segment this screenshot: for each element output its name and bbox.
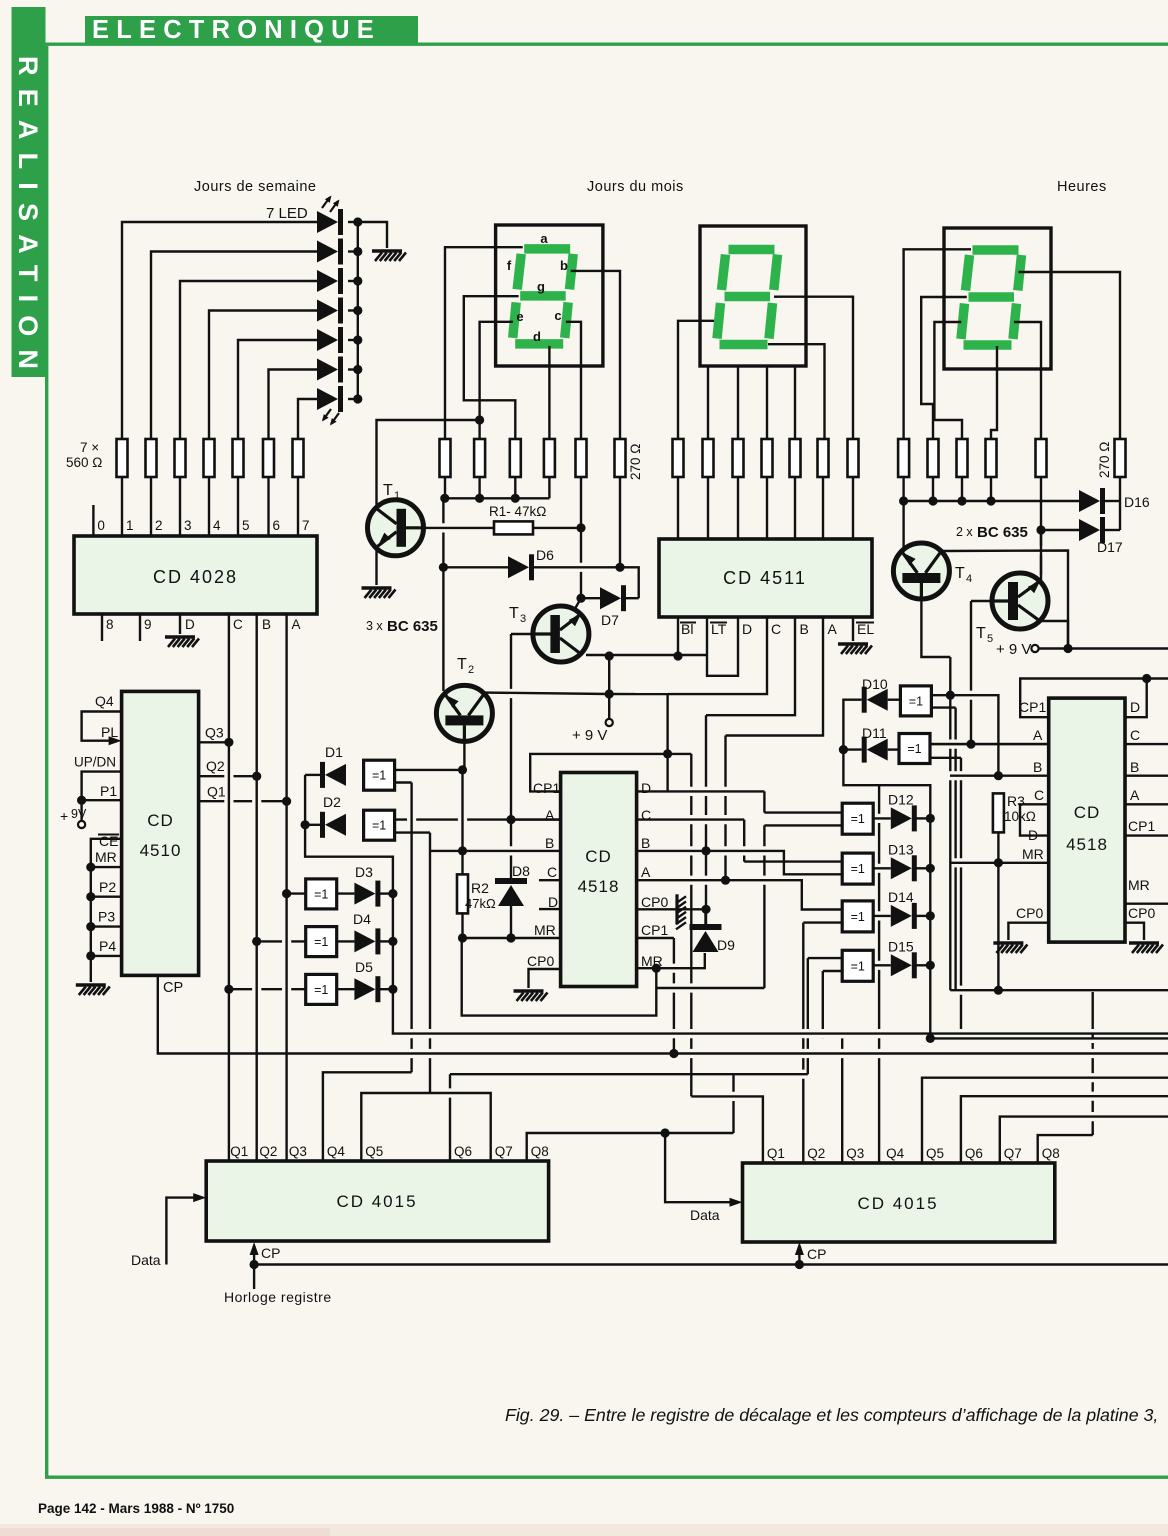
junction rail/D12	[926, 814, 935, 823]
svg-text:T: T	[976, 625, 986, 642]
terminal +9V (display drivers)	[606, 719, 613, 726]
wire P3 stub	[91, 925, 122, 927]
junction MR/D8	[506, 933, 515, 942]
wire D17 anode	[1041, 529, 1079, 531]
wire Q8-2 link	[1038, 1135, 1093, 1163]
IC CD4015 #1	[206, 1161, 548, 1241]
wire C2 stub	[1020, 804, 1049, 835]
bus right 990	[950, 989, 1168, 991]
wire DIS3 seg e	[934, 322, 962, 439]
svg-text:CP: CP	[163, 980, 183, 996]
svg-text:4: 4	[213, 518, 221, 533]
junction common bus	[475, 494, 484, 503]
svg-text:MR: MR	[1022, 846, 1044, 862]
wire T3 collector link	[575, 598, 582, 609]
bus CP registre	[254, 1263, 1168, 1265]
svg-text:Heures: Heures	[1057, 179, 1107, 195]
junction rail/D14	[926, 911, 935, 920]
svg-text:Q5: Q5	[365, 1144, 383, 1159]
diode D12	[891, 807, 912, 829]
wire T2 collector	[485, 693, 609, 694]
junction D-rail bus	[926, 1034, 935, 1043]
riser Q2-2 to D14	[802, 923, 804, 1163]
svg-text:MR: MR	[95, 849, 117, 865]
resistor DIS3 #2	[928, 439, 939, 477]
junction D17/T5 collector	[1036, 525, 1045, 534]
wire CP0 left to ground (CD4518-2)	[1008, 923, 1048, 940]
svg-text:1: 1	[126, 518, 134, 533]
junction A line / T3 riser	[506, 815, 515, 824]
wire DIS2 resistor #1 to CD4511	[677, 477, 679, 539]
xor gate =1 (D15)	[842, 950, 873, 981]
wire Q1 to A bus	[199, 800, 287, 802]
junction rail/D5	[388, 985, 397, 994]
wire Q5-1 riser link	[361, 1093, 490, 1161]
svg-text:Q1: Q1	[767, 1146, 785, 1161]
resistor R3 10k	[993, 793, 1004, 832]
svg-text:P3: P3	[98, 909, 115, 925]
junction B4511/D9 top/CP0	[701, 905, 710, 914]
junction bus990/R3 rail	[994, 986, 1003, 995]
resistor DIS2 #5	[790, 439, 801, 477]
resistor 560ohm #5	[233, 439, 244, 477]
xor gate =1 (D10)	[900, 686, 931, 716]
wire C left stub (CD4518-1)	[539, 879, 561, 881]
wire D1 upper stub	[394, 769, 462, 771]
IC CD4518 #1	[561, 773, 637, 987]
wire LED cathode to bus	[348, 339, 358, 341]
junction R1/res5	[576, 523, 585, 532]
wire DIS3 seg d	[991, 346, 997, 439]
svg-text:B: B	[1130, 759, 1139, 775]
wire DIS1 seg g	[464, 296, 519, 439]
svg-text:Q8: Q8	[531, 1144, 549, 1159]
svg-text:A: A	[545, 807, 555, 823]
LED D_7 (7 LED group)	[317, 388, 338, 410]
wire D14 in	[873, 915, 891, 917]
svg-text:+ 9 V: + 9 V	[572, 727, 607, 744]
svg-text:CD 4511: CD 4511	[723, 568, 807, 588]
wire D11 lower stub	[930, 757, 961, 759]
transistor T1	[368, 500, 424, 556]
ground (CD4518-1 CP0 left)	[514, 989, 544, 992]
svg-text:Jours du mois: Jours du mois	[587, 179, 684, 195]
LED D_6 (7 LED group)	[317, 359, 338, 381]
wire resistor #5 to CD4028 pin 5	[237, 477, 239, 536]
arrow Data CD4015-1	[193, 1193, 206, 1202]
wire R3 to MR2	[997, 832, 999, 862]
svg-text:T: T	[457, 656, 467, 673]
wire D10 anode rail	[843, 700, 930, 1039]
svg-text:C: C	[771, 621, 781, 637]
svg-text:C: C	[233, 617, 243, 632]
svg-text:CP: CP	[807, 1246, 826, 1262]
junction rail/D15	[926, 961, 935, 970]
resistor DIS1 #1	[440, 439, 451, 477]
wire DIS3 resistor to bus	[990, 477, 992, 501]
svg-text:A: A	[641, 864, 651, 880]
svg-text:D3: D3	[355, 864, 373, 880]
wire CD4511 D riser	[666, 694, 668, 791]
junction LED bus	[353, 335, 362, 344]
wire D15 in	[873, 964, 891, 966]
svg-text:D: D	[742, 621, 752, 637]
svg-text:Q4: Q4	[327, 1144, 346, 1159]
wire LT pin	[707, 617, 738, 676]
svg-text:CD: CD	[147, 811, 174, 830]
wire resistor #7 to CD4028 pin 7	[297, 477, 299, 536]
junction P2	[86, 892, 95, 901]
junction Q2/B	[252, 772, 261, 781]
svg-text:3 x: 3 x	[366, 619, 383, 633]
wire DIS2 resistor #4 to CD4511	[766, 477, 768, 539]
junction LED bus	[353, 217, 362, 226]
wire D4 cathode to rail	[379, 940, 393, 942]
svg-text:7: 7	[302, 518, 310, 533]
diode D16	[1079, 490, 1100, 512]
junction rail/D11	[839, 745, 848, 754]
junction common bus	[511, 494, 520, 503]
wire anode LED7	[298, 399, 317, 439]
wire D7 anode	[581, 597, 600, 599]
svg-text:D4: D4	[353, 911, 371, 927]
svg-text:f: f	[507, 258, 512, 273]
resistor DIS3 #4	[986, 439, 997, 477]
wire EL to ground	[852, 617, 854, 641]
LED cathode bus wire	[357, 222, 359, 399]
svg-text:PL: PL	[101, 724, 118, 740]
ground (CD4518-1 CP0, side)	[675, 894, 678, 924]
wire LED cathode to bus	[348, 280, 358, 282]
wire D2 anode	[305, 824, 320, 826]
wire R1 to node	[533, 527, 581, 529]
svg-text:47kΩ: 47kΩ	[465, 896, 496, 911]
svg-text:D2: D2	[323, 794, 341, 810]
page bottom edge tint	[0, 1524, 1168, 1536]
svg-text:Q6: Q6	[454, 1144, 472, 1159]
wire T4 base down	[921, 599, 950, 657]
wire CP1 right (CD4518-2)	[1125, 834, 1168, 836]
diode D13	[891, 857, 912, 879]
svg-text:MR: MR	[534, 922, 556, 938]
wire T4 collector to +9V	[942, 551, 1069, 649]
svg-text:T: T	[955, 565, 965, 582]
wire D2 upper stub to A line	[394, 818, 560, 820]
wire DIS2 resistor #3 to CD4511	[737, 477, 739, 539]
arrow CP CD4015-1	[250, 1242, 259, 1255]
resistor DIS2 #1	[673, 439, 684, 477]
junction B4511/B4518	[701, 846, 710, 855]
wire B2 right (CD4518-2)	[1125, 775, 1168, 777]
svg-text:Q1: Q1	[230, 1144, 248, 1159]
wire D7 cathode	[626, 597, 639, 599]
xor gate =1 (D2)	[364, 810, 395, 840]
ground (LED bus)	[372, 249, 402, 252]
svg-text:+: +	[60, 808, 68, 824]
wire DIS2 resistor #7 to CD4511	[852, 477, 854, 539]
wire D right pin (CD4518-1)	[637, 790, 765, 792]
svg-text:=1: =1	[851, 959, 865, 973]
junction DIS3 bus	[928, 496, 937, 505]
svg-text:0: 0	[97, 518, 105, 533]
wire D17 cathode	[1105, 529, 1120, 531]
wire T3 emitter line to CD4511	[586, 654, 707, 656]
wire 270ohm down to D16/D17	[1119, 477, 1121, 530]
svg-text:4518: 4518	[1066, 835, 1108, 854]
svg-text:b: b	[560, 258, 568, 273]
junction CP bus	[669, 1049, 678, 1058]
svg-text:CP0: CP0	[641, 894, 668, 910]
wire resistor #6 to CD4028 pin 6	[267, 477, 269, 536]
LED D_3 (7 LED group)	[317, 270, 338, 292]
wire resistor #1 to CD4028 pin 1	[121, 477, 123, 536]
wire C2 right (CD4518-2)	[1125, 743, 1168, 745]
svg-text:D15: D15	[888, 938, 914, 954]
svg-text:Q6: Q6	[965, 1146, 983, 1161]
resistor 270ohm (DIS1 b)	[615, 439, 626, 477]
svg-text:D7: D7	[601, 612, 619, 628]
svg-text:ELECTRONIQUE: ELECTRONIQUE	[92, 16, 381, 44]
svg-text:7 LED: 7 LED	[266, 205, 308, 222]
wire Q5-2 link	[922, 1078, 1168, 1163]
diode D7	[600, 587, 621, 609]
wire Q4-1 riser link	[323, 1072, 412, 1161]
xor gate =1 (D13)	[842, 853, 873, 884]
svg-text:D: D	[641, 780, 651, 796]
svg-text:REALISATION: REALISATION	[13, 56, 43, 382]
wire T1 collector to seg e node	[377, 420, 480, 508]
resistor 560ohm #4	[204, 439, 215, 477]
svg-text:5: 5	[987, 633, 993, 645]
svg-text:C: C	[547, 864, 557, 880]
display DIS1 frame (jours du mois digit 1)	[496, 225, 603, 366]
junction D6 anode	[439, 563, 448, 572]
ELECTRONIQUE header bar	[85, 16, 418, 45]
wire A right pin (CD4518-1)	[637, 880, 843, 909]
svg-text:D17: D17	[1097, 539, 1123, 555]
wire D6 junction down to T2	[442, 567, 444, 691]
LED light arrows bottom	[323, 409, 339, 424]
wire A node to D8	[510, 820, 512, 878]
wire T2 emitter down	[463, 741, 465, 770]
wire Q7-2 link	[1000, 1117, 1168, 1163]
junction T2 collector/+9V	[605, 689, 614, 698]
resistor DIS3 #5	[1036, 439, 1047, 477]
wire resistor #3 to CD4028 pin 3	[179, 477, 181, 536]
wire common bus down to D6	[442, 498, 444, 567]
svg-text:2: 2	[468, 664, 474, 676]
DIS1 common bus wire	[445, 497, 550, 499]
junction MR/R2	[458, 933, 467, 942]
diode D8	[495, 878, 527, 884]
junction A4511/A4518	[721, 876, 730, 885]
wire anode LED4	[209, 311, 317, 440]
ground (CD4511 EL)	[838, 642, 868, 645]
svg-text:CD: CD	[1074, 803, 1101, 822]
resistor 560ohm #1	[117, 439, 128, 477]
LED D_2 (7 LED group)	[317, 241, 338, 263]
wire B right pin (CD4518-1)	[637, 851, 843, 874]
svg-text:+ 9 V: + 9 V	[996, 641, 1031, 658]
svg-text:3: 3	[520, 613, 526, 625]
svg-text:MR: MR	[1128, 877, 1150, 893]
LED D_1 (7 LED group)	[317, 211, 338, 233]
svg-text:=1: =1	[372, 819, 386, 833]
svg-text:D: D	[1130, 699, 1140, 715]
wire A2 line	[930, 743, 1049, 745]
wire LED bus to ground	[358, 222, 387, 248]
resistor DIS1 #5	[576, 439, 587, 477]
wire DIS3 seg b	[1019, 272, 1121, 439]
resistor DIS1 #3	[510, 439, 521, 477]
xor gate =1 (D1)	[364, 760, 395, 790]
junction DIS3 bus	[957, 496, 966, 505]
wire DIS2 seg d	[794, 366, 796, 439]
wire DIS1 seg e	[480, 322, 513, 439]
green top rule	[46, 43, 1168, 46]
svg-text:CP0: CP0	[527, 953, 554, 969]
wire CE rail	[91, 839, 122, 982]
resistor DIS2 #2	[703, 439, 714, 477]
wire D5 out	[337, 988, 355, 990]
xor gate =1 (D4)	[306, 927, 337, 957]
junction LED bus	[353, 276, 362, 285]
wire DIS2 seg g	[737, 366, 739, 439]
svg-text:Horloge registre: Horloge registre	[224, 1289, 332, 1305]
svg-text:2: 2	[155, 518, 163, 533]
junction top bus D2	[1142, 674, 1151, 683]
wire D6 cathode	[534, 567, 639, 598]
diode D4	[354, 930, 375, 952]
wire 270ohm down to D6 cathode line	[619, 477, 621, 567]
wire anode LED2	[151, 252, 317, 440]
resistor 270ohm (DIS3 b)	[1115, 439, 1126, 477]
wire T5 emitter to +9V	[1041, 621, 1069, 649]
svg-text:D14: D14	[888, 889, 914, 905]
wire resistor5 down to R1 node	[580, 477, 582, 528]
svg-text:=1: =1	[851, 862, 865, 876]
svg-text:8: 8	[106, 617, 114, 632]
wire C pin of CD4511	[668, 617, 767, 694]
wire resistor #4 to CD4028 pin 4	[208, 477, 210, 536]
wire MR2 line	[951, 862, 1049, 864]
junction seg e / T1	[475, 415, 484, 424]
svg-text:CP1: CP1	[1128, 818, 1155, 834]
ground (CD4518-2 CP0 right)	[1129, 941, 1159, 944]
wire DIS3 resistor to bus	[902, 477, 904, 501]
svg-text:Q7: Q7	[1004, 1146, 1022, 1161]
svg-text:560 Ω: 560 Ω	[66, 455, 102, 470]
svg-text:A: A	[828, 621, 838, 637]
junction B2/R3	[994, 771, 1003, 780]
svg-text:5: 5	[242, 518, 250, 533]
svg-text:3: 3	[184, 518, 192, 533]
wire T2 collector extension	[609, 693, 667, 695]
svg-text:B: B	[1033, 759, 1042, 775]
svg-text:2 x: 2 x	[956, 525, 973, 539]
green left rule	[45, 46, 48, 1478]
arrow Data CD4015-2	[730, 1198, 743, 1207]
diode D6	[508, 556, 529, 578]
svg-text:D12: D12	[888, 791, 914, 807]
wire LED cathode to bus	[348, 221, 358, 223]
wire D2 lower stub to Q5 riser	[394, 831, 430, 833]
wire Q1-2 link	[691, 1096, 763, 1163]
wire D10 lower stub	[931, 706, 955, 708]
svg-text:g: g	[537, 279, 545, 294]
svg-text:CP1: CP1	[533, 780, 560, 796]
svg-text:4518: 4518	[578, 877, 620, 896]
LED D_4 (7 LED group)	[317, 300, 338, 322]
terminal +9V (right)	[1031, 645, 1038, 652]
DIS3 common bus wire	[904, 500, 1079, 502]
resistor R1 47k	[494, 521, 533, 534]
svg-text:CP0: CP0	[1128, 905, 1155, 921]
wire DIS2 seg a	[678, 321, 714, 439]
ground (CD4028 D)	[165, 635, 195, 638]
svg-text:4510: 4510	[140, 841, 182, 860]
svg-text:270 Ω: 270 Ω	[628, 444, 643, 480]
diode D1	[320, 762, 325, 788]
wire D13 cathode	[916, 867, 930, 869]
svg-text:CD 4028: CD 4028	[153, 567, 238, 587]
wire DIS2 seg e	[766, 366, 768, 439]
wire Bl pin	[677, 617, 679, 656]
resistor 560ohm #6	[263, 439, 274, 477]
wire D3 input from A bus	[287, 892, 306, 894]
wire CP1 right (CD4518-1)	[637, 937, 674, 939]
resistor DIS2 #7	[848, 439, 859, 477]
wire DIS3 seg c	[1014, 322, 1041, 439]
svg-text:D: D	[548, 894, 558, 910]
wire D11 to xor	[888, 748, 899, 750]
svg-text:=1: =1	[851, 812, 865, 826]
wire Horloge registre	[253, 1265, 255, 1290]
junction LED bus	[353, 394, 362, 403]
wire T3 base	[511, 633, 533, 635]
svg-text:Q3: Q3	[205, 725, 224, 741]
wire DIS3 resistor to bus	[932, 477, 934, 501]
junction A/D3	[282, 889, 291, 898]
junction B/D4	[252, 937, 261, 946]
wire D5 input from C bus	[229, 988, 306, 990]
transistor T4	[893, 543, 949, 599]
wire A pin of CD4511 down	[726, 617, 824, 736]
junction LED bus	[353, 247, 362, 256]
svg-text:Q3: Q3	[289, 1144, 307, 1159]
wire D11 out to A2	[930, 743, 1049, 745]
wire P4 stub	[91, 955, 122, 957]
junction D1 stub/T2	[458, 765, 467, 774]
svg-text:=1: =1	[907, 742, 921, 756]
IC CD4511	[659, 539, 872, 617]
wire D4 out	[337, 940, 355, 942]
svg-text:4: 4	[966, 573, 972, 585]
wire Q6-2 link	[961, 1096, 1168, 1163]
wire UPDN-P1 loop	[82, 772, 122, 801]
wire B line (CD4518-1)	[430, 850, 561, 852]
xor gate =1 (D12)	[842, 803, 873, 834]
svg-text:Q1: Q1	[207, 784, 226, 800]
svg-text:Fig. 29. – Entre le registre d: Fig. 29. – Entre le registre de décalage…	[505, 1405, 1158, 1425]
svg-text:Q8: Q8	[1042, 1146, 1060, 1161]
wire anode LED6	[269, 370, 318, 440]
wire anode LED3	[180, 281, 317, 439]
wire T5 collector	[1040, 530, 1042, 581]
LED light arrows top	[322, 197, 338, 212]
diode D17	[1079, 519, 1100, 541]
wire D left stub (CD4518-1)	[539, 908, 561, 910]
